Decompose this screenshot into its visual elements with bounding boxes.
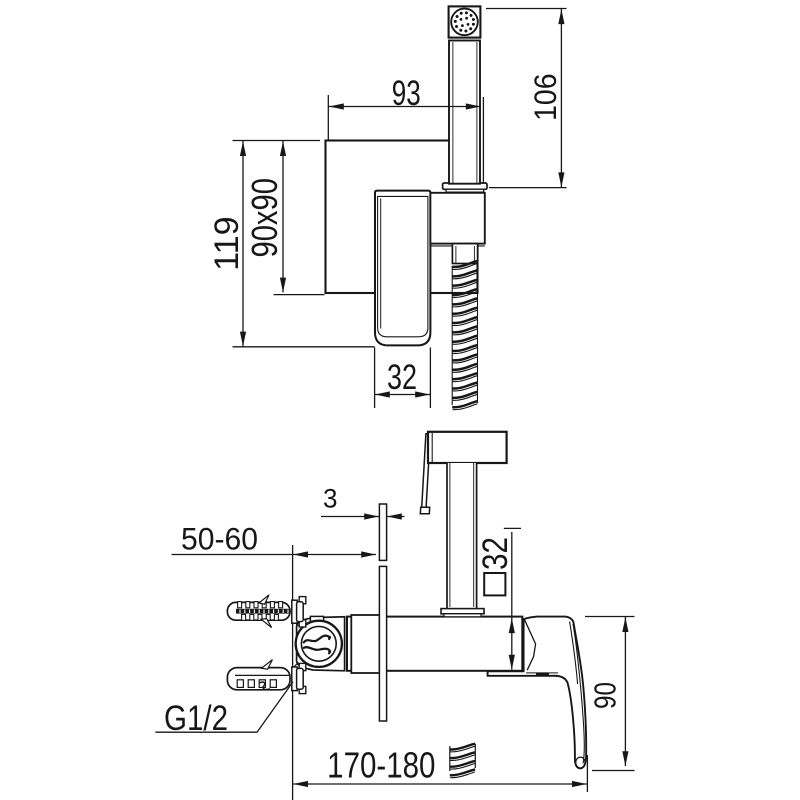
- hand shower handle side view: [447, 463, 477, 608]
- holder flange side view: [441, 609, 484, 614]
- dim 93: [328, 95, 483, 184]
- svg-text:93: 93: [392, 73, 421, 113]
- cartridge tab: [310, 616, 323, 622]
- holder bracket flange: [443, 183, 487, 189]
- lower inlet stub G1/2: [292, 663, 306, 693]
- mixer body side view: [347, 617, 522, 671]
- lever handle front view: [375, 191, 430, 346]
- spray nozzle dots: [454, 11, 475, 32]
- wall plate edge-on (3mm) lower: [379, 566, 386, 721]
- svg-text:32: 32: [387, 358, 417, 397]
- svg-text:119: 119: [208, 216, 246, 270]
- flexible hose spiral: [452, 261, 477, 410]
- shower holder block front view: [430, 193, 484, 244]
- lower wall anchor dowel + screw: [227, 660, 290, 690]
- dim 170-180: [293, 755, 588, 792]
- svg-text:90x90: 90x90: [244, 178, 285, 257]
- wall plate 90x90 front view: [326, 141, 478, 294]
- hand shower handle front view: [449, 41, 480, 184]
- svg-text:50-60: 50-60: [181, 522, 258, 557]
- dim 90: [585, 617, 635, 771]
- svg-text:32: 32: [476, 537, 515, 570]
- valve nut side view: [297, 617, 345, 671]
- label G1/2 with leader: [155, 682, 293, 732]
- svg-text:90: 90: [588, 682, 622, 709]
- hose break symbol near dimension: [450, 744, 476, 778]
- dim 50-60: [172, 554, 377, 556]
- dim 90x90: [274, 141, 325, 295]
- escutcheon boss section: [351, 615, 379, 673]
- hand shower head front view: [449, 6, 481, 37]
- wall plate edge-on (3mm) upper: [379, 504, 386, 560]
- spray face circle: [451, 9, 478, 36]
- svg-text:3: 3: [323, 483, 337, 513]
- hand shower head side view: [428, 432, 507, 463]
- valve face circle: [296, 621, 342, 667]
- svg-text:G1/2: G1/2: [164, 699, 228, 738]
- spray nozzle spout side view: [422, 434, 431, 508]
- upper inlet stub G1/2: [292, 597, 306, 627]
- dim square-32 (body section): [504, 528, 521, 669]
- dim 32 (lever width): [375, 348, 431, 409]
- dim 3 (plate thickness): [321, 516, 405, 518]
- hose connector nut: [452, 244, 477, 264]
- svg-text:106: 106: [529, 73, 564, 120]
- dim 119: [233, 141, 375, 347]
- lever handle side view: [488, 617, 587, 769]
- svg-text:170-180: 170-180: [327, 745, 435, 786]
- hot/cold wave symbols: [304, 636, 330, 654]
- dim 106: [486, 9, 567, 188]
- upper wall anchor dowel + screw: [227, 595, 290, 628]
- inlet reference line: [292, 545, 294, 800]
